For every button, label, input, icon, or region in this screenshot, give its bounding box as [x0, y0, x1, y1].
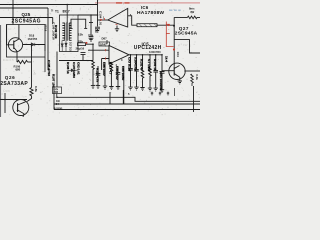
svg-text:HA17808W: HA17808W: [137, 10, 164, 16]
wire resistor to Q27 collector line: [157, 24, 174, 26]
svg-text:C105 47/16: C105 47/16: [47, 60, 51, 76]
svg-text:3.3k: 3.3k: [195, 74, 199, 80]
paper background: [0, 0, 200, 117]
svg-text:04/: 04/: [56, 99, 60, 103]
transistor Q27: [162, 61, 200, 81]
red highlight dashes on net: [116, 2, 130, 4]
ground under Q27: [178, 81, 182, 84]
svg-text:1W: 1W: [183, 43, 188, 47]
wire IC5 input pin 1: [88, 49, 109, 51]
svg-text:C4: C4: [56, 102, 60, 106]
faint bleedthrough smudges: [3, 27, 188, 101]
diode D18 wire: [23, 45, 46, 52]
diode D18: [31, 43, 35, 46]
wire from C87 to IC5: [106, 40, 108, 44]
vertical x54: [53, 86, 55, 110]
svg-text:4.7 1/2W: 4.7 1/2W: [147, 59, 151, 71]
node red dot on 22k output: [86, 42, 88, 44]
red pin ticks IC5: [105, 49, 107, 60]
Q25 detail box: [7, 25, 46, 58]
string x155.7: [153, 55, 158, 91]
string x136.5: [134, 55, 139, 90]
wire box to bus A: [56, 94, 58, 98]
svg-text:4W: 4W: [190, 10, 195, 14]
svg-text:R118 4.7k: R118 4.7k: [96, 68, 100, 82]
svg-text:0.0047/50: 0.0047/50: [149, 50, 161, 54]
node red dot IC6 input: [100, 19, 102, 21]
wire elbow to right edge: [174, 40, 200, 53]
wire IC6 output jog: [128, 16, 137, 25]
svg-text:1/2W: 1/2W: [3, 89, 10, 93]
string x123.8 to bus: [123, 66, 125, 104]
diode mid-left: [69, 69, 77, 72]
svg-text:1k 4: 1k 4: [165, 56, 169, 62]
wire below T1 box: [57, 52, 93, 88]
resistor 22k: [78, 43, 86, 46]
tiny parts above bus right: [151, 88, 175, 96]
node red dot near Q27: [173, 48, 175, 50]
svg-text:13k: 13k: [78, 33, 83, 37]
resistor string x150: [148, 55, 152, 91]
jumper staple symbol: [70, 19, 88, 28]
svg-text:Q25: Q25: [22, 12, 31, 17]
transistor Q25: [7, 25, 23, 63]
string x130.5: [128, 55, 133, 90]
resistor R106: [17, 60, 31, 63]
wire IC5 output: [129, 54, 162, 56]
svg-text:2SC945AG: 2SC945AG: [12, 18, 42, 24]
wire IC6 input: [98, 19, 108, 21]
svg-text:7i: 7i: [51, 9, 53, 13]
node junction dots on output: [130, 54, 163, 56]
svg-text:R117 4.7: R117 4.7: [109, 62, 113, 75]
blue annotation top right: [169, 9, 181, 11]
svg-text:8917: 8917: [63, 10, 70, 14]
red annotation line: [166, 22, 173, 47]
wire below box right edge: [44, 57, 46, 72]
svg-text:47: 47: [33, 72, 37, 76]
capacitor C83 string x162: [160, 55, 165, 93]
wire vertical x13 to Q25 box: [12, 0, 14, 25]
wire right edge down: [193, 86, 195, 112]
capacitor below 22k: [81, 52, 86, 54]
svg-text:CX3 B103: CX3 B103: [128, 57, 132, 72]
vertical x110: [109, 92, 111, 104]
vertical x123.3: [122, 90, 124, 104]
wire IC5 input pin 2: [102, 59, 109, 71]
svg-text:T1: T1: [55, 10, 59, 14]
transformer T1 windings: [62, 23, 71, 41]
svg-text:R101 1k: R101 1k: [153, 59, 157, 71]
svg-text:1R47: 1R47: [100, 42, 107, 46]
wire from 22k to IC5 input: [86, 44, 94, 50]
svg-text:10: 10: [8, 27, 12, 31]
svg-text:1S1555: 1S1555: [28, 37, 38, 41]
amplifier IC5 triangle: [109, 46, 129, 65]
svg-text:10/50B: 10/50B: [54, 106, 62, 110]
component strings to ground (middle bottom): [91, 50, 165, 104]
svg-text:R102 47: R102 47: [140, 59, 144, 71]
svg-text:0.0047/50: 0.0047/50: [134, 57, 138, 71]
resistor above Q26: [27, 88, 33, 102]
fuse resistor box label above IC5: [99, 42, 110, 46]
node red tick on lead: [168, 24, 170, 26]
wire top bus 1: [0, 4, 98, 6]
resistor 3.3k: [191, 74, 194, 86]
red pin mark 1: [104, 18, 106, 20]
svg-text:25M: 25M: [53, 91, 58, 94]
wire bus line y17.5: [0, 17, 53, 19]
transistor Q26: [0, 93, 29, 117]
svg-text:Q26: Q26: [5, 75, 15, 80]
bus B: [54, 103, 200, 105]
svg-text:C92 0.01: C92 0.01: [77, 62, 81, 75]
rotated labels left middle: [47, 25, 81, 88]
svg-text:D87: D87: [102, 37, 108, 41]
svg-text:47/16: 47/16: [44, 24, 48, 32]
wire top right: [174, 16, 200, 61]
svg-text:680: 680: [16, 68, 21, 72]
svg-text:C86 10/50: C86 10/50: [121, 66, 125, 81]
svg-text:20μ/16: 20μ/16: [76, 46, 85, 50]
bottom bus wires: [54, 86, 200, 110]
svg-text:UPC1242H: UPC1242H: [134, 45, 162, 51]
wire collector chain down to Q26: [31, 45, 33, 88]
small box on bus A start: [53, 87, 62, 94]
svg-text:R107 150: R107 150: [52, 74, 56, 88]
svg-text:2SC945A: 2SC945A: [175, 31, 198, 37]
node junction dot: [173, 25, 175, 27]
transformer T1 box: [60, 15, 79, 52]
string x105: [103, 62, 107, 89]
svg-text:2SA733AP: 2SA733AP: [0, 81, 28, 87]
regulator IC6 triangle: [98, 8, 138, 27]
svg-text:D17 D16: D17 D16: [68, 42, 71, 52]
scan speckle: [0, 1, 200, 116]
svg-text:C88 470P: C88 470P: [115, 66, 119, 80]
bus A with step: [57, 97, 200, 101]
wire top bus 2: [0, 7, 48, 9]
node junction dots on wires: [4, 4, 98, 101]
red pin mark 2: [116, 23, 118, 25]
svg-text:R108 1k: R108 1k: [66, 62, 70, 74]
svg-text:8.2k 0.5: 8.2k 0.5: [3, 58, 14, 62]
transformer T1 feed wire: [66, 5, 68, 23]
node highlighted +B net (pink): [95, 2, 200, 4]
svg-text:R109 10k: R109 10k: [54, 25, 58, 39]
ground under IC6: [115, 26, 119, 32]
wire vertical x97.5 with capacitor: [95, 0, 100, 32]
resistor after IC6: [137, 24, 157, 27]
svg-text:C7a: C7a: [88, 33, 93, 37]
svg-text:Q27: Q27: [179, 26, 189, 31]
svg-text:6.8k: 6.8k: [34, 86, 38, 92]
svg-text:C85 100P: C85 100P: [102, 62, 106, 76]
rectifier diodes in T1 box: [61, 41, 67, 52]
wire vertical x48: [47, 8, 49, 70]
resistor string x93: [91, 50, 95, 88]
svg-text:104: 104: [176, 52, 180, 57]
resistor string x142.5: [140, 55, 144, 91]
string x98: [96, 66, 101, 89]
wire box top to C104 line: [78, 14, 98, 16]
svg-text:C83 100/25M: C83 100/25M: [159, 72, 163, 91]
bus C: [54, 109, 200, 111]
string x118: [116, 66, 121, 89]
capacitor to ground x91: [89, 15, 94, 41]
rotated labels for strings: [96, 56, 169, 91]
svg-text:IC6: IC6: [141, 5, 149, 10]
resistor string x111.4: [109, 62, 113, 89]
left border line: [0, 25, 2, 117]
